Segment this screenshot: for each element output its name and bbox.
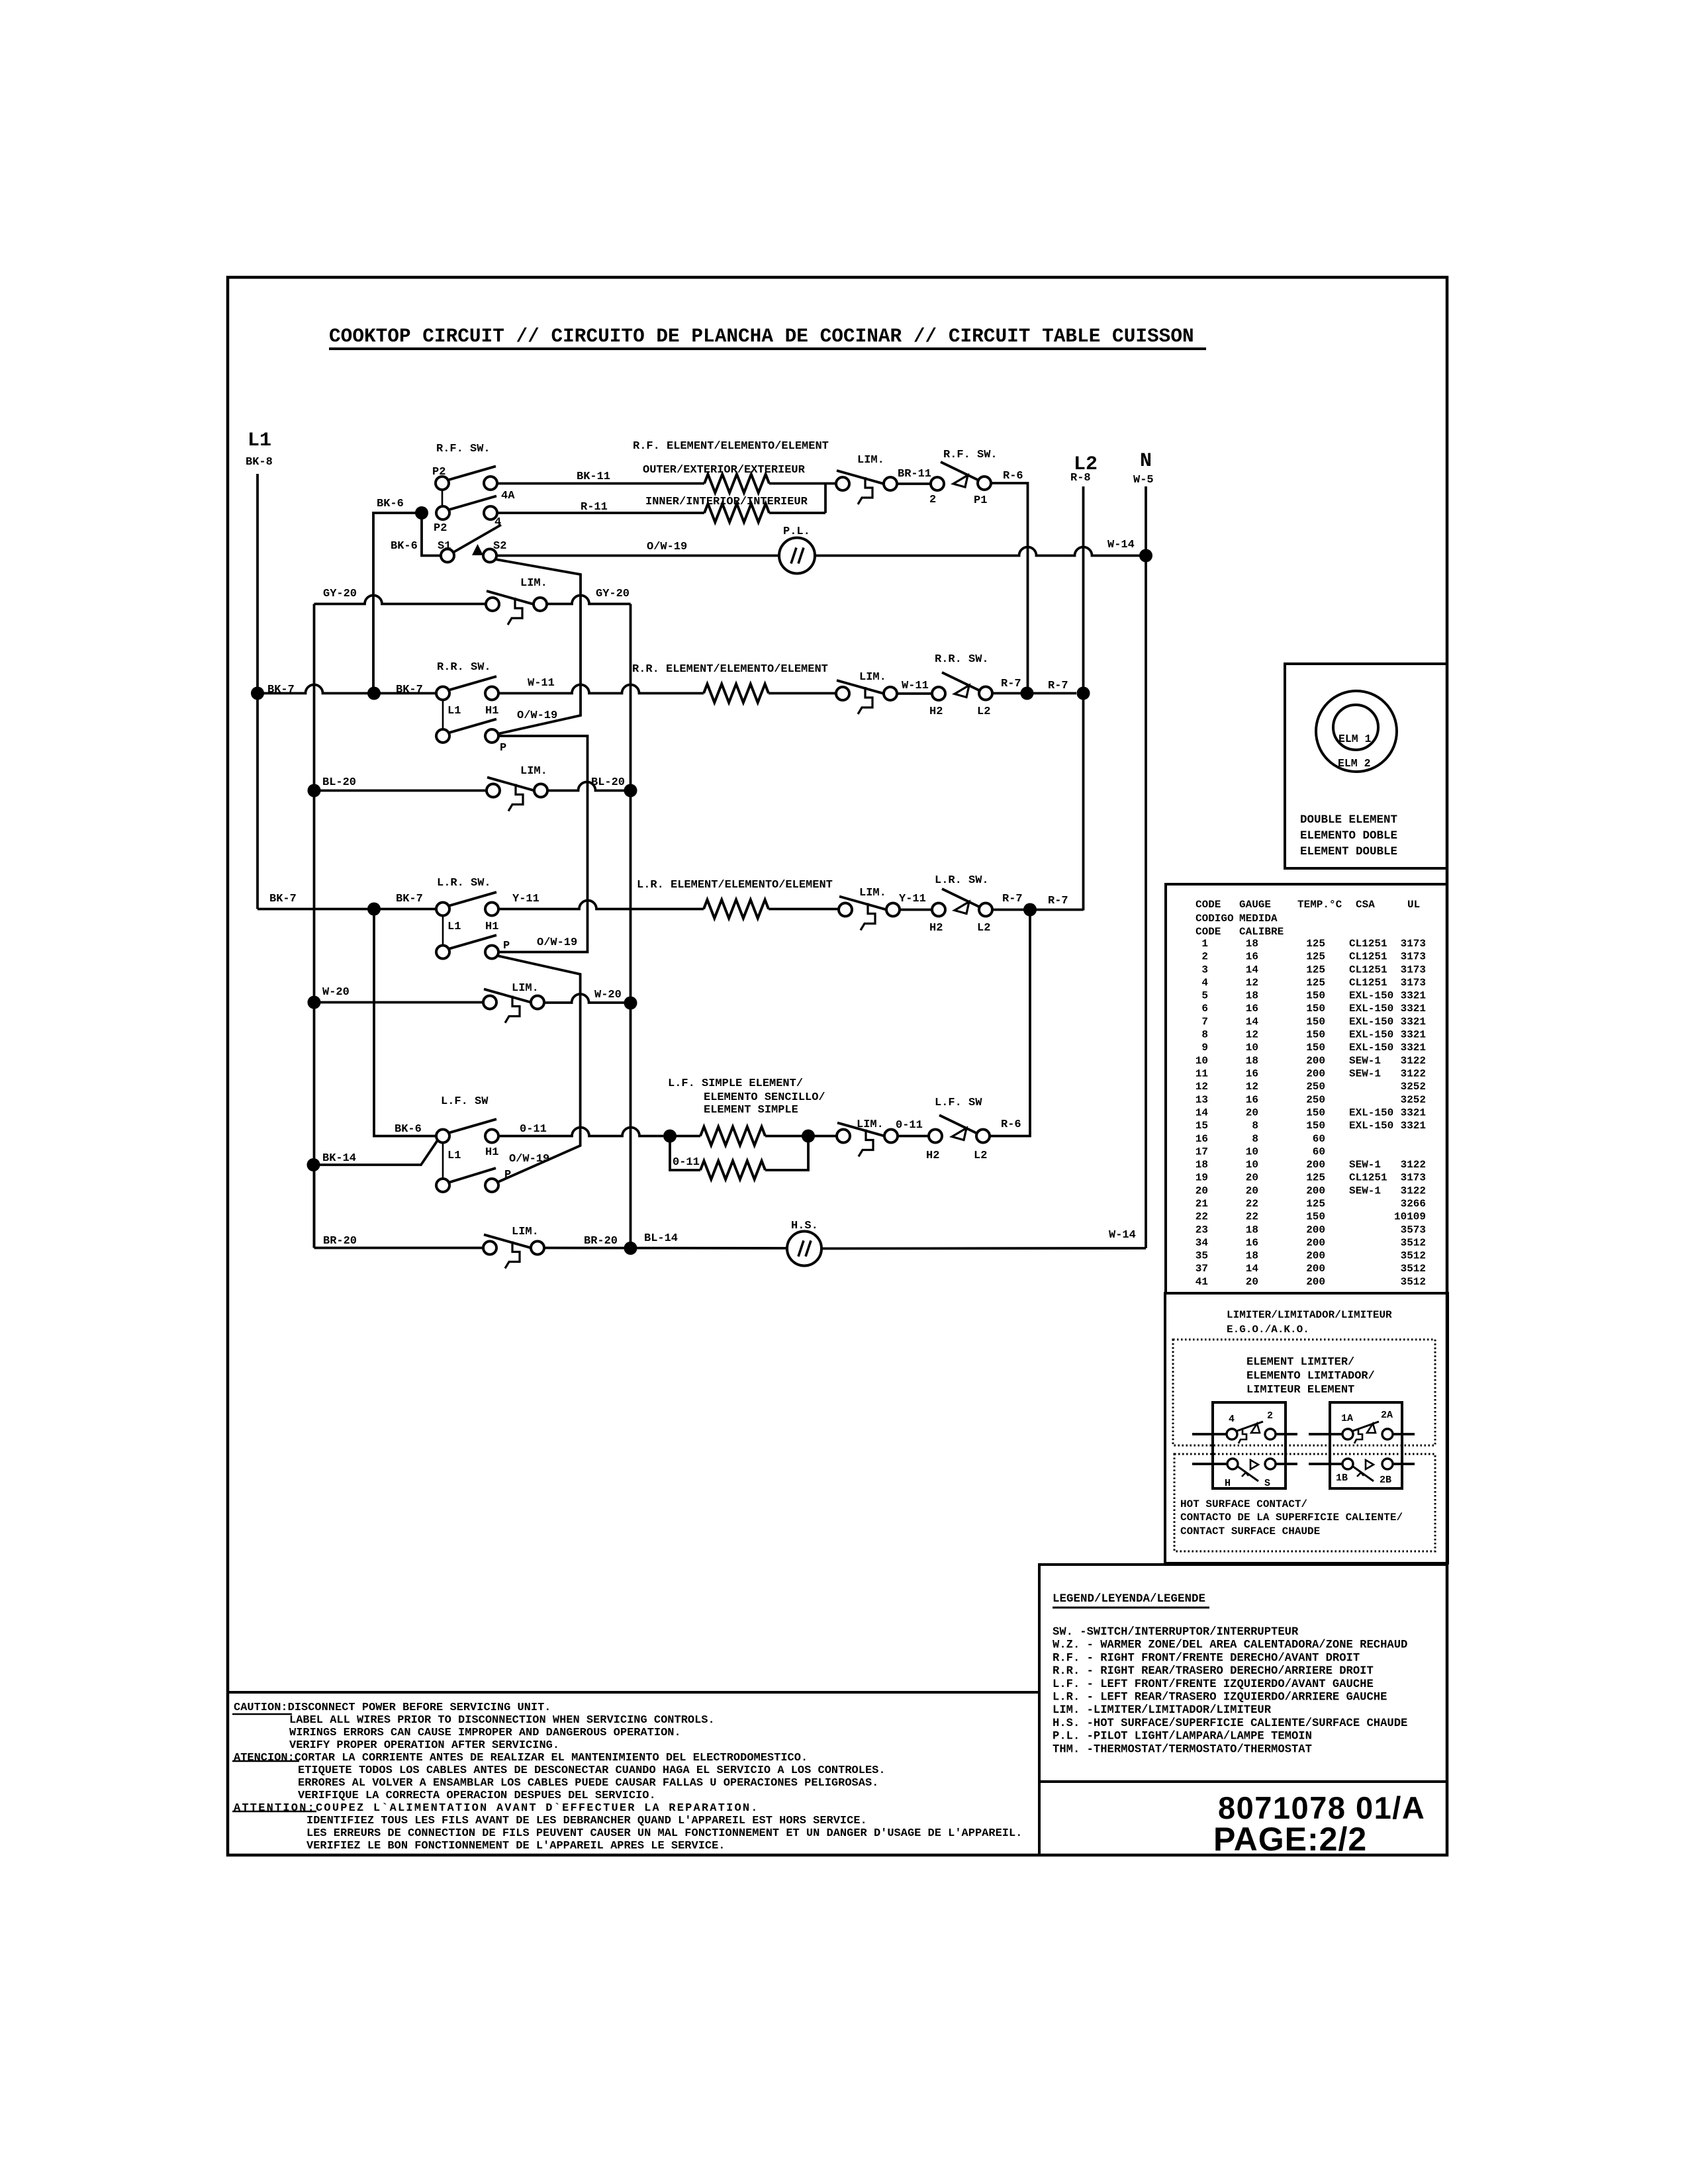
svg-text:BK-6: BK-6	[391, 540, 418, 553]
svg-text:L.F. SW: L.F. SW	[935, 1097, 982, 1109]
junction 0-11 b	[802, 1130, 815, 1143]
wire outer to LIM	[769, 482, 836, 485]
wire BK-14 drop	[313, 1165, 316, 1248]
svg-text:125: 125	[1306, 938, 1325, 950]
svg-text:200: 200	[1306, 1237, 1325, 1249]
svg-text:THM. -THERMOSTAT/TERMOSTATO/TH: THM. -THERMOSTAT/TERMOSTATO/THERMOSTAT	[1053, 1743, 1312, 1756]
wire GY-20 right	[547, 596, 631, 604]
link R.R. SW. poles	[442, 700, 444, 730]
svg-text:3321: 3321	[1401, 1107, 1426, 1119]
junction W-20/GY-20	[624, 997, 637, 1010]
marker S2 triangle	[472, 544, 483, 555]
svg-text:R-8: R-8	[1070, 472, 1091, 484]
svg-text:P: P	[504, 1169, 511, 1181]
svg-text:CODE: CODE	[1196, 899, 1221, 911]
svg-text:R-7: R-7	[1048, 895, 1068, 907]
svg-text:W-11: W-11	[528, 677, 555, 690]
svg-text:N: N	[1140, 450, 1152, 473]
svg-text:60: 60	[1313, 1133, 1325, 1145]
svg-text:BK-6: BK-6	[395, 1123, 422, 1136]
svg-text:3173: 3173	[1401, 938, 1426, 950]
svg-text:3173: 3173	[1401, 964, 1426, 976]
svg-text:LIM.: LIM.	[857, 454, 884, 467]
svg-text:3122: 3122	[1401, 1159, 1426, 1171]
wire BK-6 drop to L.F.	[374, 909, 436, 1136]
box hot surface dotted	[1174, 1454, 1435, 1551]
wire BR-20 right	[545, 1247, 787, 1250]
svg-text:150: 150	[1306, 1016, 1325, 1028]
table wire codes	[1196, 899, 1426, 1288]
svg-text:R-7: R-7	[1001, 678, 1021, 690]
svg-text:10: 10	[1246, 1159, 1258, 1171]
box limiter switch left	[1213, 1402, 1286, 1488]
svg-text:L1: L1	[248, 430, 271, 452]
wire resistor out	[765, 1135, 808, 1138]
svg-text:CODE: CODE	[1196, 926, 1221, 938]
svg-text:R.F. SW.: R.F. SW.	[436, 443, 491, 455]
svg-text:L.R. ELEMENT/ELEMENTO/ELEMENT: L.R. ELEMENT/ELEMENTO/ELEMENT	[637, 879, 833, 891]
svg-text:3512: 3512	[1401, 1276, 1426, 1288]
svg-text:250: 250	[1306, 1081, 1325, 1093]
svg-text:EXL-150: EXL-150	[1349, 1042, 1393, 1054]
svg-text:200: 200	[1306, 1276, 1325, 1288]
link R.F. SW. poles	[442, 490, 444, 506]
box wire code table	[1166, 884, 1447, 1293]
svg-text:150: 150	[1306, 1029, 1325, 1041]
svg-text:3122: 3122	[1401, 1068, 1426, 1080]
svg-text:CONTACTO DE LA SUPERFICIE CALI: CONTACTO DE LA SUPERFICIE CALIENTE/	[1180, 1512, 1403, 1524]
svg-text:22: 22	[1196, 1211, 1208, 1223]
wire BR-11	[897, 482, 931, 485]
svg-text:LIM.: LIM.	[859, 671, 886, 684]
junction BK-14	[307, 1158, 320, 1171]
wire W-20 right	[544, 994, 631, 1003]
svg-text:10: 10	[1196, 1055, 1208, 1067]
svg-text:3321: 3321	[1401, 990, 1426, 1002]
svg-text:3321: 3321	[1401, 1120, 1426, 1132]
svg-text:2B: 2B	[1380, 1475, 1391, 1486]
svg-text:34: 34	[1196, 1237, 1209, 1249]
svg-text:R.R. - RIGHT REAR/TRASERO DERE: R.R. - RIGHT REAR/TRASERO DERECHO/ARRIER…	[1053, 1665, 1374, 1678]
svg-text:10: 10	[1246, 1146, 1258, 1158]
svg-text:EXL-150: EXL-150	[1349, 990, 1393, 1002]
svg-text:H: H	[1225, 1478, 1231, 1489]
svg-text:EXL-150: EXL-150	[1349, 1003, 1393, 1015]
wire Y-11	[498, 901, 704, 909]
svg-text:8: 8	[1252, 1120, 1258, 1132]
wire limiter lower right	[1393, 1463, 1415, 1465]
svg-text:CL1251: CL1251	[1349, 938, 1387, 950]
wire to resistor	[670, 1135, 700, 1138]
svg-text:LIM.: LIM.	[512, 1226, 539, 1238]
svg-text:R.R. SW.: R.R. SW.	[437, 661, 491, 674]
svg-text:35: 35	[1196, 1250, 1208, 1262]
wire N W-5 bus	[1145, 486, 1147, 1248]
svg-text:L2: L2	[977, 922, 990, 934]
wire W-14 to N	[815, 547, 1146, 556]
svg-text:BL-20: BL-20	[591, 776, 625, 789]
svg-text:ATTENTION:COUPEZ L`ALIMENTATIO: ATTENTION:COUPEZ L`ALIMENTATION AVANT D`…	[234, 1802, 759, 1815]
svg-text:22: 22	[1246, 1198, 1258, 1210]
svg-text:HOT SURFACE CONTACT/: HOT SURFACE CONTACT/	[1180, 1498, 1307, 1510]
svg-text:23: 23	[1196, 1224, 1208, 1236]
svg-text:3573: 3573	[1401, 1224, 1426, 1236]
svg-text:EXL-150: EXL-150	[1349, 1107, 1393, 1119]
svg-text:CL1251: CL1251	[1349, 964, 1387, 976]
wire GY-20 left	[314, 596, 487, 604]
svg-text:18: 18	[1196, 1159, 1208, 1171]
svg-text:S: S	[1264, 1478, 1270, 1489]
svg-text:LIM.: LIM.	[512, 982, 539, 995]
svg-text:L2: L2	[974, 1150, 987, 1162]
wire element to LIM	[769, 692, 836, 695]
svg-text:18: 18	[1246, 1250, 1258, 1262]
svg-text:P2: P2	[434, 522, 447, 535]
box limiter detail	[1165, 1293, 1448, 1563]
svg-text:MEDIDA: MEDIDA	[1239, 913, 1278, 925]
svg-text:18: 18	[1246, 938, 1258, 950]
junction BK-7/BK-6 drop	[367, 903, 381, 916]
svg-text:14: 14	[1246, 964, 1259, 976]
svg-text:200: 200	[1306, 1224, 1325, 1236]
svg-text:SEW-1: SEW-1	[1349, 1055, 1381, 1067]
junction BL-20/GY-20	[624, 784, 637, 797]
svg-text:CL1251: CL1251	[1349, 1172, 1387, 1184]
svg-text:WIRINGS ERRORS CAN CAUSE IMPRO: WIRINGS ERRORS CAN CAUSE IMPROPER AND DA…	[289, 1727, 681, 1739]
svg-text:SEW-1: SEW-1	[1349, 1159, 1381, 1171]
svg-text:3266: 3266	[1401, 1198, 1426, 1210]
svg-text:ELEMENTO LIMITADOR/: ELEMENTO LIMITADOR/	[1246, 1370, 1375, 1383]
svg-text:L.R. SW.: L.R. SW.	[935, 874, 989, 887]
wire W-11 right	[897, 692, 932, 695]
box element limiter dotted	[1173, 1340, 1435, 1445]
wire limiter lower left	[1192, 1463, 1227, 1465]
link L.F. SW poles	[442, 1143, 444, 1179]
svg-text:1: 1	[1201, 938, 1208, 950]
svg-text:2: 2	[929, 494, 936, 506]
resistor L.F. element lower	[700, 1161, 765, 1179]
svg-text:Y-11: Y-11	[512, 893, 539, 905]
svg-text:150: 150	[1306, 1120, 1325, 1132]
svg-text:GY-20: GY-20	[323, 588, 357, 600]
wire GY-20 left drop	[313, 604, 316, 1248]
svg-text:16: 16	[1246, 1094, 1258, 1106]
wire dot to S1	[422, 513, 441, 556]
svg-text:BR-20: BR-20	[323, 1235, 357, 1248]
svg-text:Y-11: Y-11	[899, 893, 926, 905]
svg-text:GAUGE: GAUGE	[1239, 899, 1271, 911]
svg-text:P.L. -PILOT LIGHT/LAMPARA/LAMP: P.L. -PILOT LIGHT/LAMPARA/LAMPE TEMOIN	[1053, 1731, 1312, 1743]
svg-text:125: 125	[1306, 964, 1325, 976]
junction W-20	[308, 996, 321, 1009]
svg-text:O/W-19: O/W-19	[509, 1153, 549, 1165]
svg-text:125: 125	[1306, 1198, 1325, 1210]
svg-text:CL1251: CL1251	[1349, 951, 1387, 963]
svg-text:21: 21	[1196, 1198, 1208, 1210]
svg-text:ELEMENT LIMITER/: ELEMENT LIMITER/	[1246, 1356, 1354, 1369]
svg-text:LIMITER/LIMITADOR/LIMITEUR: LIMITER/LIMITADOR/LIMITEUR	[1227, 1309, 1392, 1321]
svg-text:H.S. -HOT SURFACE/SUPERFICIE C: H.S. -HOT SURFACE/SUPERFICIE CALIENTE/SU…	[1053, 1717, 1407, 1730]
wire BK-7 L.R.	[258, 908, 436, 911]
svg-text:OUTER/EXTERIOR/EXTERIEUR: OUTER/EXTERIOR/EXTERIEUR	[643, 464, 806, 477]
wire R-7	[992, 692, 1076, 695]
resistor R.R. element	[704, 684, 769, 703]
svg-text:18: 18	[1246, 990, 1258, 1002]
switch arm lower left	[1238, 1467, 1258, 1481]
wire 0-11 right	[898, 1135, 929, 1138]
wire element to LIM L.R.	[769, 908, 839, 911]
svg-text:VERIFIQUE LA CORRECTA OPERACIO: VERIFIQUE LA CORRECTA OPERACION DESPUES …	[298, 1790, 656, 1802]
wire BL-20 right	[547, 782, 631, 791]
switch R.R. SW. contact P	[436, 729, 449, 743]
wire R-6 drop	[991, 483, 1028, 694]
svg-text:20: 20	[1246, 1185, 1258, 1197]
svg-text:TEMP.°C: TEMP.°C	[1297, 899, 1342, 911]
svg-text:W-20: W-20	[322, 986, 350, 999]
svg-text:R.R. SW.: R.R. SW.	[935, 653, 989, 666]
svg-text:0-11: 0-11	[673, 1156, 700, 1169]
svg-text:H2: H2	[929, 922, 943, 934]
svg-text:VERIFIEZ LE BON FONCTIONNEMENT: VERIFIEZ LE BON FONCTIONNEMENT DE L'APPA…	[306, 1840, 726, 1852]
svg-text:4: 4	[1229, 1414, 1235, 1425]
element ELM outer circle	[1316, 691, 1397, 772]
wire limiter upper mid-right	[1309, 1433, 1342, 1435]
svg-text:INNER/INTERIOR/INTERIEUR: INNER/INTERIOR/INTERIEUR	[645, 496, 808, 508]
svg-text:16: 16	[1246, 951, 1258, 963]
svg-text:12: 12	[1246, 977, 1258, 989]
svg-text:L1: L1	[447, 705, 461, 717]
svg-text:3252: 3252	[1401, 1094, 1426, 1106]
svg-text:16: 16	[1196, 1133, 1208, 1145]
svg-text:3321: 3321	[1401, 1029, 1426, 1041]
svg-text:EXL-150: EXL-150	[1349, 1016, 1393, 1028]
box limiter switch right	[1330, 1402, 1402, 1488]
svg-text:CAUTION:DISCONNECT POWER BEFOR: CAUTION:DISCONNECT POWER BEFORE SERVICIN…	[234, 1702, 551, 1714]
svg-text:BK-7: BK-7	[396, 684, 423, 696]
svg-text:EXL-150: EXL-150	[1349, 1120, 1393, 1132]
junction BL-20	[308, 784, 321, 797]
svg-text:DOUBLE ELEMENT: DOUBLE ELEMENT	[1300, 813, 1397, 827]
svg-text:LIM.: LIM.	[520, 577, 547, 590]
svg-text:ELEMENT SIMPLE: ELEMENT SIMPLE	[704, 1104, 798, 1116]
wire 0-11 lower loop	[670, 1136, 700, 1171]
wire W-20 left	[314, 1001, 484, 1004]
svg-text:3512: 3512	[1401, 1250, 1426, 1262]
svg-text:R.F. SW.: R.F. SW.	[943, 449, 998, 461]
svg-text:3173: 3173	[1401, 977, 1426, 989]
svg-text:4A: 4A	[501, 490, 515, 502]
svg-text:16: 16	[1246, 1003, 1258, 1015]
svg-text:9: 9	[1201, 1042, 1208, 1054]
svg-text:ATENCION:CORTAR LA CORRIENTE A: ATENCION:CORTAR LA CORRIENTE ANTES DE RE…	[234, 1752, 808, 1764]
wire limiter upper left	[1192, 1433, 1227, 1435]
svg-text:200: 200	[1306, 1068, 1325, 1080]
wire BK-14	[314, 1140, 438, 1165]
resistor R.F. outer element	[704, 475, 769, 493]
svg-text:15: 15	[1196, 1120, 1208, 1132]
svg-text:CODIGO: CODIGO	[1196, 913, 1234, 925]
svg-text:W.Z. - WARMER ZONE/DEL AREA CA: W.Z. - WARMER ZONE/DEL AREA CALENTADORA/…	[1053, 1639, 1407, 1652]
svg-text:11: 11	[1196, 1068, 1208, 1080]
switch L.R. SW. contact P	[436, 946, 449, 959]
svg-text:H1: H1	[485, 705, 498, 717]
svg-text:R.R. ELEMENT/ELEMENTO/ELEMENT: R.R. ELEMENT/ELEMENTO/ELEMENT	[632, 663, 828, 676]
svg-text:PAGE:2/2: PAGE:2/2	[1213, 1821, 1367, 1858]
svg-text:10: 10	[1246, 1042, 1258, 1054]
svg-text:BK-8: BK-8	[246, 456, 273, 469]
svg-text:L2: L2	[977, 705, 990, 718]
svg-text:12: 12	[1196, 1081, 1208, 1093]
svg-text:125: 125	[1306, 1172, 1325, 1184]
switch arm upper right	[1353, 1422, 1379, 1431]
svg-text:BK-11: BK-11	[577, 471, 610, 483]
svg-text:3512: 3512	[1401, 1237, 1426, 1249]
wire BL-20 left	[314, 790, 487, 792]
svg-text:16: 16	[1246, 1237, 1258, 1249]
wire L1 bus	[256, 474, 259, 909]
svg-text:BL-14: BL-14	[644, 1232, 678, 1245]
svg-text:ELM 1: ELM 1	[1338, 733, 1372, 745]
svg-text:W-14: W-14	[1107, 539, 1135, 551]
svg-text:7: 7	[1201, 1016, 1208, 1028]
svg-text:ELM 2: ELM 2	[1338, 757, 1371, 770]
svg-text:O/W-19: O/W-19	[517, 709, 557, 722]
wire 0-11	[498, 1128, 663, 1136]
svg-text:3122: 3122	[1401, 1055, 1426, 1067]
svg-text:P.L.: P.L.	[783, 525, 810, 538]
svg-text:H1: H1	[485, 1146, 498, 1159]
wire limiter upper mid-left	[1276, 1433, 1297, 1435]
wire inner return	[769, 512, 825, 514]
svg-text:R-7: R-7	[1048, 680, 1068, 692]
box part number	[1039, 1782, 1447, 1855]
svg-text:3512: 3512	[1401, 1263, 1426, 1275]
element ELM inner circle	[1333, 705, 1378, 750]
wire limiter upper right	[1393, 1433, 1415, 1435]
svg-text:19: 19	[1196, 1172, 1208, 1184]
junction R-7/R-6	[1021, 687, 1034, 700]
svg-text:12: 12	[1246, 1029, 1258, 1041]
switch arm lower right	[1353, 1467, 1374, 1481]
table legend entries	[1053, 1626, 1407, 1756]
svg-text:L.F. SW: L.F. SW	[441, 1095, 489, 1108]
line caution divider	[228, 1691, 1039, 1694]
wire S2 drop O/W-19	[494, 559, 581, 735]
svg-text:EXL-150: EXL-150	[1349, 1029, 1393, 1041]
svg-text:L.R. SW.: L.R. SW.	[437, 877, 491, 889]
svg-text:200: 200	[1306, 1263, 1325, 1275]
svg-text:BK-7: BK-7	[396, 893, 423, 905]
wire O/W-19	[496, 555, 779, 557]
svg-text:LEGEND/LEYENDA/LEGENDE: LEGEND/LEYENDA/LEGENDE	[1053, 1592, 1205, 1606]
svg-text:LIMITEUR ELEMENT: LIMITEUR ELEMENT	[1246, 1384, 1354, 1396]
svg-text:BK-14: BK-14	[322, 1152, 356, 1165]
junction 0-11 a	[663, 1130, 677, 1143]
svg-text:150: 150	[1306, 1042, 1325, 1054]
svg-text:2A: 2A	[1381, 1410, 1393, 1421]
svg-text:SW. -SWITCH/INTERRUPTOR/INTER: SW. -SWITCH/INTERRUPTOR/INTERRUPTEUR	[1053, 1626, 1299, 1639]
junction R-7/L2	[1077, 687, 1090, 700]
svg-text:LIM.: LIM.	[859, 887, 886, 899]
svg-text:L.F. - LEFT FRONT/FRENTE IZQUI: L.F. - LEFT FRONT/FRENTE IZQUIERDO/AVANT…	[1053, 1678, 1374, 1691]
svg-text:SEW-1: SEW-1	[1349, 1068, 1381, 1080]
svg-text:CSA: CSA	[1356, 899, 1375, 911]
svg-text:ERRORES AL VOLVER A ENSAMBLAR: ERRORES AL VOLVER A ENSAMBLAR LOS CABLES…	[298, 1777, 878, 1790]
junction BR-20/BL-14	[624, 1242, 637, 1255]
svg-text:BL-20: BL-20	[322, 776, 356, 789]
svg-text:L1: L1	[447, 921, 461, 933]
svg-text:L1: L1	[447, 1150, 461, 1162]
svg-text:150: 150	[1306, 990, 1325, 1002]
wire BK-11	[497, 482, 704, 485]
box double element	[1285, 664, 1447, 868]
svg-text:14: 14	[1246, 1016, 1259, 1028]
svg-text:BR-11: BR-11	[898, 468, 931, 480]
svg-text:LIM.: LIM.	[520, 765, 547, 778]
wire Y-11 right	[900, 909, 932, 911]
wire L2 R-8 bus	[1082, 486, 1085, 911]
svg-text:6: 6	[1201, 1003, 1208, 1015]
svg-text:3: 3	[1201, 964, 1208, 976]
svg-text:14: 14	[1196, 1107, 1209, 1119]
svg-text:BK-6: BK-6	[377, 498, 404, 510]
svg-text:22: 22	[1246, 1211, 1258, 1223]
junction BK-7/L1	[251, 687, 264, 700]
svg-text:W-14: W-14	[1109, 1229, 1136, 1242]
svg-text:41: 41	[1196, 1276, 1208, 1288]
svg-text:ELEMENT DOUBLE: ELEMENT DOUBLE	[1300, 845, 1397, 858]
svg-text:CONTACT SURFACE CHAUDE: CONTACT SURFACE CHAUDE	[1180, 1525, 1320, 1537]
svg-text:2: 2	[1267, 1410, 1273, 1422]
svg-text:H2: H2	[926, 1150, 939, 1162]
svg-text:3321: 3321	[1401, 1042, 1426, 1054]
svg-text:CALIBRE: CALIBRE	[1239, 926, 1284, 938]
svg-text:L.R. - LEFT REAR/TRASERO IZQUI: L.R. - LEFT REAR/TRASERO IZQUIERDO/ARRIE…	[1053, 1692, 1387, 1704]
box legend	[1039, 1565, 1447, 1782]
svg-text:17: 17	[1196, 1146, 1208, 1158]
wire R-7 L.R.	[992, 909, 1084, 911]
svg-text:1A: 1A	[1341, 1413, 1353, 1424]
svg-text:125: 125	[1306, 951, 1325, 963]
wire GY-20 right drop	[630, 604, 632, 1249]
junction R-7/R-6 lower	[1023, 903, 1037, 917]
svg-text:W-11: W-11	[902, 680, 929, 692]
svg-text:SEW-1: SEW-1	[1349, 1185, 1381, 1197]
svg-text:13: 13	[1196, 1094, 1208, 1106]
svg-text:W-5: W-5	[1133, 474, 1154, 486]
wire R-6 rise	[990, 910, 1030, 1136]
svg-text:200: 200	[1306, 1159, 1325, 1171]
wire R-11	[497, 512, 704, 514]
svg-text:3173: 3173	[1401, 1172, 1426, 1184]
svg-text:R-6: R-6	[1001, 1118, 1021, 1131]
switch arm upper left	[1237, 1422, 1263, 1431]
wire limiter lower mid-left	[1276, 1463, 1297, 1465]
svg-text:VERIFY PROPER OPERATION AFTER: VERIFY PROPER OPERATION AFTER SERVICING.	[289, 1739, 559, 1752]
svg-text:4: 4	[1201, 977, 1208, 989]
svg-text:1B: 1B	[1336, 1473, 1348, 1484]
junction BK-6 node	[415, 506, 428, 520]
svg-text:20: 20	[1246, 1276, 1258, 1288]
svg-text:20: 20	[1246, 1172, 1258, 1184]
svg-text:0-11: 0-11	[520, 1123, 547, 1136]
svg-text:18: 18	[1246, 1224, 1258, 1236]
svg-text:O/W-19: O/W-19	[537, 936, 577, 949]
svg-text:2: 2	[1201, 951, 1208, 963]
wire limiter lower mid-right	[1309, 1463, 1342, 1465]
svg-text:COOKTOP CIRCUIT // CIRCUITO DE: COOKTOP CIRCUIT // CIRCUITO DE PLANCHA D…	[329, 326, 1194, 347]
wire W-11	[498, 685, 704, 694]
